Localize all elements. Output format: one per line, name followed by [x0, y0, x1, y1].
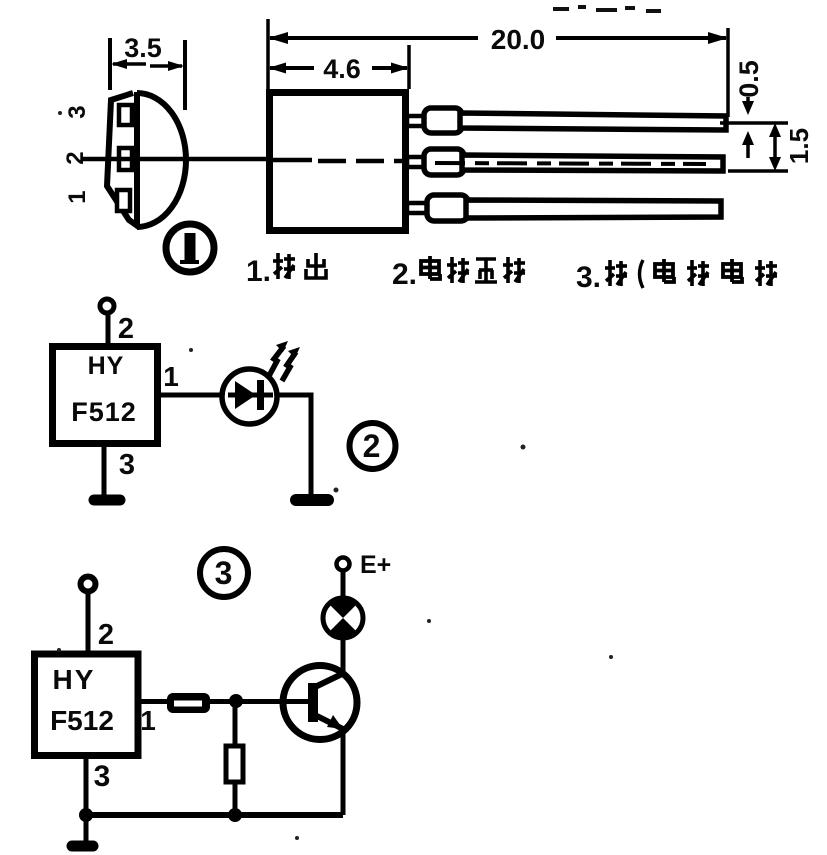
dim 4.6 extension line right	[407, 45, 411, 89]
dim 1.5 extension line bottom	[728, 169, 788, 173]
center axis dashed inside body	[318, 159, 404, 164]
scan noise specks	[57, 111, 613, 840]
resistor R2 vertical	[226, 746, 243, 782]
svg-text:F512: F512	[50, 705, 114, 736]
svg-text:2: 2	[118, 313, 134, 345]
lead 2 dashed centerline	[435, 163, 706, 164]
terminal E+	[337, 558, 350, 571]
junction dot middle	[228, 808, 242, 822]
lead 1 stub	[407, 116, 426, 126]
svg-text:1: 1	[163, 361, 179, 392]
dim 3.5 extension line right	[183, 40, 187, 110]
svg-text:0.5: 0.5	[734, 60, 764, 98]
pin 2 cross-section	[119, 148, 132, 170]
pin 1 cross-section	[117, 190, 130, 211]
svg-text:1: 1	[140, 705, 156, 736]
lamp L1	[323, 598, 363, 638]
IC U2 box HY F512	[35, 654, 139, 756]
svg-text:2: 2	[98, 619, 114, 651]
dim 3.5 dimension line with arrows	[113, 64, 182, 66]
dim 0.5 arrow	[746, 97, 750, 110]
package body front view	[270, 93, 406, 231]
lead 3 shaft	[466, 200, 721, 218]
svg-text:2.: 2.	[392, 258, 417, 291]
svg-text:3: 3	[94, 760, 111, 793]
IC U1 box HY F512	[53, 347, 158, 444]
dim 1.5 gap arrow	[746, 142, 750, 158]
dim 4.6 dimension line	[270, 66, 314, 70]
package top view outline (D-shape)	[107, 93, 139, 227]
terminal pin2 fig3	[81, 577, 96, 592]
dim 1.5 dimension line with arrows	[773, 128, 777, 166]
svg-text:3.5: 3.5	[124, 33, 162, 63]
svg-text:2: 2	[363, 428, 381, 464]
wire pin3	[102, 443, 107, 495]
emitter wire down	[341, 729, 346, 815]
junction node A	[229, 694, 243, 708]
lead 3 collar	[427, 195, 468, 221]
svg-text:3: 3	[119, 449, 135, 481]
collector wire to lamp	[341, 637, 346, 676]
terminal pin2	[100, 299, 114, 313]
dim 1.5 extension line top	[720, 121, 788, 125]
circled 1 figure marker	[166, 224, 214, 272]
svg-text:4.6: 4.6	[323, 54, 361, 84]
ground right	[296, 494, 328, 506]
wire node A down	[233, 701, 238, 747]
junction dot left	[79, 808, 93, 822]
transistor Q1	[283, 666, 357, 740]
LED D1	[222, 369, 277, 424]
wire pin3 fig3	[84, 755, 89, 843]
LED emission arrows	[269, 346, 284, 376]
lead 1 shaft	[460, 113, 726, 130]
ground bottom fig2	[94, 495, 120, 506]
wire pin2 fig3	[86, 591, 91, 652]
wire pin1 to base	[138, 699, 310, 704]
wire R2 to rail	[233, 782, 238, 815]
circled 2 figure marker	[350, 423, 396, 469]
dim 20.0 dimension line	[270, 36, 478, 40]
lead 2 collar	[424, 149, 464, 175]
dim 20.0 extension line right	[726, 28, 730, 117]
svg-text:E+: E+	[360, 551, 391, 579]
dim 20.0 extension line left	[266, 19, 270, 89]
bottom rail wire	[86, 812, 343, 818]
svg-text:F512: F512	[71, 397, 137, 427]
svg-text:3: 3	[64, 105, 91, 118]
svg-text:1: 1	[64, 190, 91, 203]
center axis line	[81, 157, 302, 162]
wire pin2	[106, 312, 111, 348]
circled 3 figure marker	[200, 549, 248, 597]
package top view chord	[134, 92, 140, 227]
pin 3 cross-section	[119, 105, 132, 125]
scan artifact dashes top	[553, 5, 661, 13]
wire LED to ground	[277, 395, 311, 497]
ground fig3	[72, 841, 93, 852]
svg-text:HY: HY	[88, 352, 125, 380]
svg-text:20.0: 20.0	[491, 24, 546, 55]
svg-text:3.: 3.	[576, 261, 601, 294]
svg-text:1.: 1.	[246, 255, 271, 288]
lead 1 collar	[424, 108, 462, 133]
lead 2 stub	[407, 157, 426, 167]
svg-text:3: 3	[215, 555, 233, 591]
package top view arc	[137, 93, 186, 227]
resistor R1 horizontal	[167, 693, 210, 713]
wire pin1	[157, 393, 312, 398]
lead 2 shaft	[462, 155, 723, 171]
center axis solid inside body	[266, 158, 312, 163]
svg-text:1.5: 1.5	[784, 128, 814, 164]
lead 3 stub	[407, 203, 428, 213]
wire lamp to E+ terminal	[341, 571, 346, 599]
svg-text:HY: HY	[53, 664, 96, 695]
dim 3.5 extension line left	[108, 38, 112, 90]
